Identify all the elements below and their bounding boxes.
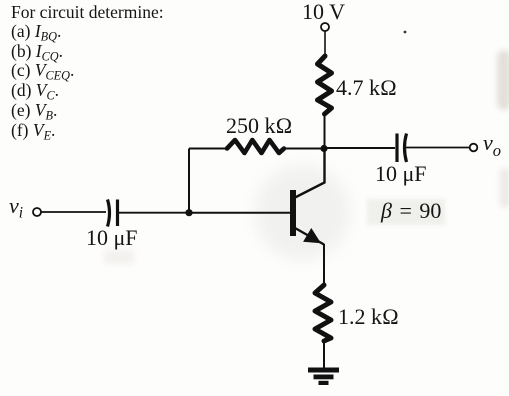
supply terminal 10V — [321, 23, 329, 31]
wire emitter down to R3 — [323, 244, 325, 285]
wire node to C2 — [324, 147, 395, 149]
problem statement text — [11, 2, 164, 23]
node base junction — [185, 209, 192, 216]
wire C2 to output terminal — [406, 147, 470, 149]
transistor Q1 collector lead — [295, 148, 325, 198]
faint box behind beta label — [367, 199, 445, 225]
wire C1 to base junction — [119, 212, 189, 214]
wire input terminal to C1 — [41, 211, 106, 213]
label 4.7 kOhm — [336, 75, 397, 101]
capacitor C1 plate curved — [108, 200, 110, 227]
capacitor C2 plate curved — [405, 134, 407, 163]
wire junction to transistor base — [189, 212, 290, 214]
stray dot artifact — [404, 31, 407, 34]
label vo — [483, 130, 501, 156]
label 250 kOhm — [226, 113, 292, 139]
capacitor C1 plate straight — [116, 200, 119, 227]
faint scan smudge right edge — [497, 50, 509, 110]
label vi — [9, 193, 23, 219]
node collector junction — [320, 145, 327, 152]
wire node to base column top — [189, 148, 227, 150]
resistor R3 1.2k — [315, 285, 331, 341]
transistor Q1 emitter arrow — [303, 228, 321, 243]
capacitor C2 plate straight — [395, 134, 398, 163]
wire R3 to ground — [323, 341, 325, 368]
label 10 uF output — [375, 161, 427, 187]
wire R2 to node — [284, 148, 324, 150]
input terminal — [33, 208, 41, 216]
ground symbol — [308, 368, 339, 386]
transistor Q1 emitter lead — [295, 228, 324, 245]
resistor R1 4.7k — [318, 56, 332, 114]
label 1.2 kOhm — [338, 304, 399, 330]
resistor R2 250k — [227, 140, 284, 153]
wire supply to R1 — [324, 31, 326, 57]
label beta = 90 — [381, 198, 441, 224]
faint halo around transistor — [255, 165, 350, 260]
output terminal — [470, 144, 478, 152]
label 10 V — [302, 0, 345, 25]
wire R1 to collector node — [324, 114, 326, 149]
transistor Q1 base bar — [290, 190, 296, 236]
wire junction up to R2 — [188, 149, 190, 213]
faint ghost text P — [104, 250, 134, 264]
faint scan smudge right edge lower — [500, 168, 509, 208]
label 10 uF input — [86, 225, 138, 251]
